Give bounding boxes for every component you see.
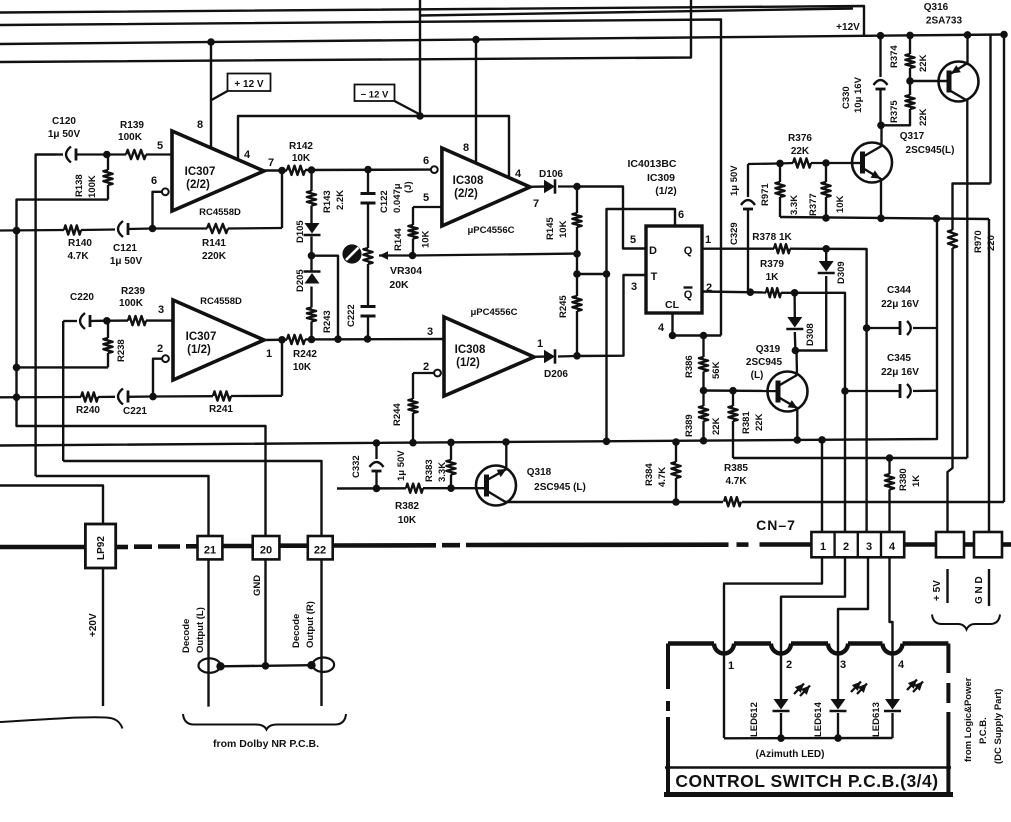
pin 6 inverting bubble IC307(2/2): [162, 188, 169, 195]
svg-text:7: 7: [268, 157, 274, 169]
label D106: [539, 169, 563, 180]
svg-text:G N D: G N D: [974, 576, 985, 604]
wire pin4 CL line: [669, 313, 721, 339]
svg-text:D: D: [649, 245, 657, 257]
pin 3: [158, 304, 164, 316]
svg-text:LED613: LED613: [871, 702, 882, 737]
pin 2 label: [706, 282, 712, 294]
svg-text:R242: R242: [293, 349, 317, 360]
label R141 value: [202, 238, 227, 262]
label Q316 type: [924, 2, 963, 27]
svg-text:3: 3: [427, 326, 433, 338]
connector line right of 22 with dashes: [333, 545, 812, 546]
capacitor C332: [370, 443, 384, 488]
svg-text:1: 1: [537, 338, 543, 350]
label D308: [805, 323, 816, 346]
svg-text:Q316: Q316: [924, 2, 949, 13]
label IC309: [647, 172, 675, 184]
svg-text:10K: 10K: [835, 195, 846, 213]
svg-text:R141: R141: [202, 238, 226, 249]
svg-text:Decode: Decode: [181, 619, 192, 653]
op-amp IC308 (1/2): [444, 317, 534, 396]
svg-text:R144: R144: [393, 228, 404, 251]
svg-text:LED614: LED614: [813, 701, 824, 737]
wire R374 junction to Q316 base: [910, 80, 947, 82]
resistor R389: [699, 391, 708, 442]
label R374 value: [889, 45, 929, 72]
svg-text:(1/2): (1/2): [456, 357, 480, 369]
node R145 bottom: [573, 254, 581, 278]
resistor R385: [723, 495, 742, 508]
resistor R140: [0, 225, 81, 234]
resistor R144: [408, 207, 442, 256]
svg-text:R142: R142: [289, 141, 313, 152]
node between D105 and D205: [308, 237, 316, 272]
svg-text:C330: C330: [841, 86, 852, 109]
svg-text:C120: C120: [52, 116, 76, 127]
pin number 1 inside box: [728, 660, 734, 672]
brace left power group: [0, 717, 123, 728]
label GND square: [974, 576, 985, 604]
svg-text:21: 21: [204, 545, 216, 557]
label R389 value: [684, 414, 722, 437]
svg-text:22μ 16V: 22μ 16V: [881, 367, 919, 378]
wire rail short stub: [989, 35, 991, 184]
svg-text:R143: R143: [322, 190, 333, 213]
label C332 value: [351, 450, 407, 481]
svg-text:Q319: Q319: [756, 344, 781, 355]
label LED612: [749, 702, 760, 737]
label R379 value: [760, 259, 784, 283]
label +20V: [88, 613, 99, 637]
label R144 value: [393, 228, 432, 251]
pin 6: [151, 175, 157, 187]
svg-text:μPC4556C: μPC4556C: [467, 225, 514, 236]
wire GND feed column: [988, 219, 990, 532]
wire C120 left to pin21 column: [36, 155, 56, 477]
capacitor C220: [63, 313, 99, 329]
label Q317 type: [900, 131, 955, 156]
loop eyelet pin21: [199, 658, 225, 672]
svg-text:Decode: Decode: [291, 614, 302, 648]
svg-text:5: 5: [630, 234, 636, 246]
svg-text:2SC945: 2SC945: [746, 357, 783, 368]
LED LED612: [773, 699, 790, 739]
label LED614: [813, 701, 824, 737]
wire IC307 pin8 supply: [210, 42, 212, 147]
svg-text:1μ 50V: 1μ 50V: [110, 256, 143, 267]
svg-text:3: 3: [158, 304, 164, 316]
label R378 value: [752, 232, 792, 243]
svg-text:4: 4: [658, 322, 665, 334]
LED LED613: [884, 699, 901, 738]
pin 2 inverting bubble IC308(1/2): [434, 370, 441, 377]
svg-text:10K: 10K: [421, 230, 432, 248]
pin 5: [157, 140, 163, 152]
resistor R141: [153, 224, 283, 233]
label R381 value: [741, 411, 765, 434]
label R145 value: [545, 217, 569, 240]
label R376 value: [788, 133, 812, 157]
label R385 value: [724, 463, 748, 487]
op-amp IC307 (2/2): [172, 131, 264, 211]
resistor R384: [671, 438, 680, 502]
svg-text:R385: R385: [724, 463, 748, 474]
pin 7 label: [533, 198, 539, 210]
svg-text:GND: GND: [252, 575, 263, 596]
svg-text:4.7K: 4.7K: [725, 476, 747, 487]
svg-text:D308: D308: [805, 323, 816, 346]
label R242 value: [293, 349, 318, 373]
wire R379 to C345 column: [781, 289, 849, 532]
svg-text:R970: R970: [973, 230, 984, 253]
svg-text:T: T: [651, 271, 658, 283]
svg-text:(1/2): (1/2): [187, 344, 211, 356]
svg-text:+12V: +12V: [836, 22, 860, 33]
svg-text:CN–7: CN–7: [756, 517, 796, 533]
svg-text:Q: Q: [684, 289, 693, 301]
wire Q317 emitter line: [780, 214, 989, 222]
pin number 2 inside box: [786, 659, 792, 671]
capacitor C345: [845, 384, 937, 398]
wire base node to R380 line: [733, 454, 967, 462]
label Q318 type: [527, 467, 586, 493]
svg-text:22μ 16V: 22μ 16V: [881, 299, 919, 310]
transistor Q318: [476, 442, 516, 505]
label uPC4556C second: [470, 307, 517, 318]
svg-text:2SA733: 2SA733: [926, 16, 963, 27]
label GND pin20: [252, 575, 263, 596]
label R245: [558, 295, 569, 318]
svg-text:IC4013BC: IC4013BC: [627, 158, 676, 170]
svg-text:(J): (J): [403, 181, 414, 193]
label C222: [346, 304, 357, 327]
pin 1 label: [705, 234, 711, 246]
svg-text:(1/2): (1/2): [655, 185, 677, 197]
svg-text:C121: C121: [113, 243, 137, 254]
label R243 value: [322, 310, 333, 333]
wire CN7 pin1 feed: [821, 441, 823, 532]
svg-text:R376: R376: [788, 133, 812, 144]
svg-text:CONTROL SWITCH P.C.B.(3/4): CONTROL SWITCH P.C.B.(3/4): [675, 771, 938, 791]
wire CN7 pin4 to box: [890, 557, 893, 699]
svg-text:(DC Supply Part): (DC Supply Part): [993, 689, 1004, 764]
label +5V: [932, 580, 943, 601]
resistor R376: [776, 158, 852, 167]
connector LP92: [85, 524, 115, 568]
svg-text:(2/2): (2/2): [454, 188, 478, 200]
pin 4 label: [515, 168, 522, 180]
wire LP92 feed: [0, 486, 103, 525]
wire gnd link between loops: [221, 662, 312, 670]
svg-text:4.7K: 4.7K: [67, 251, 89, 262]
wire main horizontal bus: [0, 219, 937, 447]
pin 4 label: [658, 322, 665, 334]
wire R242 to IC308(1/2) pin3: [305, 335, 444, 343]
connector line dashes: [116, 544, 198, 549]
svg-text:R377: R377: [808, 193, 819, 216]
diode D105: [304, 223, 321, 235]
svg-text:VR304: VR304: [390, 265, 422, 277]
svg-text:2SC945(L): 2SC945(L): [906, 145, 955, 156]
label R240: [76, 405, 100, 416]
label R238: [116, 339, 127, 362]
node Q316 base drive: [906, 77, 914, 85]
label CN-7: [756, 517, 796, 533]
label R970 value: [973, 230, 997, 253]
svg-text:R241: R241: [209, 404, 233, 415]
svg-text:LP92: LP92: [96, 536, 107, 560]
wire feedback R241 to output: [281, 340, 283, 396]
svg-text:20: 20: [260, 545, 272, 557]
connector main line left: [0, 545, 85, 550]
pin 3 label: [631, 281, 637, 293]
brace from logic power: [932, 615, 1000, 630]
pin 8: [197, 119, 203, 131]
svg-text:R971: R971: [760, 183, 771, 206]
svg-text:C122: C122: [379, 190, 390, 213]
svg-text:D105: D105: [295, 220, 306, 243]
pin 4: [244, 149, 251, 161]
svg-text:R374: R374: [889, 45, 900, 68]
svg-text:1: 1: [266, 348, 272, 360]
wire +12V rail: [0, 31, 1008, 46]
svg-text:(L): (L): [751, 370, 764, 381]
capacitor C344: [867, 321, 937, 335]
svg-text:IC308: IC308: [455, 344, 486, 356]
pin 6 inverting bubble IC308(2/2): [431, 166, 438, 173]
resistor R380: [885, 458, 894, 532]
svg-text:R383: R383: [424, 459, 435, 482]
label C329 value: [729, 165, 740, 245]
wire C220 left to pin22 column: [62, 321, 64, 461]
svg-text:3.3K: 3.3K: [437, 462, 448, 482]
svg-text:+20V: +20V: [88, 613, 99, 637]
label R971 value: [760, 183, 800, 215]
svg-text:LED612: LED612: [749, 702, 760, 737]
pin 2 inverting bubble IC307(1/2): [162, 355, 169, 362]
capacitor C221: [98, 389, 157, 405]
wire pin20 gnd drop: [264, 559, 266, 666]
label CONTROL SWITCH PCB: [675, 771, 938, 791]
svg-text:1μ 50V: 1μ 50V: [48, 129, 81, 140]
svg-text:1μ 50V: 1μ 50V: [729, 165, 740, 196]
wire bus line 1: [0, 6, 864, 36]
wire IC307(1/2) output node: [264, 336, 287, 344]
svg-text:8: 8: [197, 119, 203, 131]
wire D105/D205 node to input line: [312, 256, 339, 339]
label D206: [544, 369, 568, 380]
wire R138 bottom to left rail: [17, 200, 109, 231]
wire R238 bottom to left rail: [13, 364, 108, 372]
op-amp IC307 (1/2): [173, 300, 264, 380]
svg-text:10K: 10K: [293, 362, 312, 373]
connector line right end: [1002, 542, 1011, 547]
svg-text:2: 2: [843, 541, 849, 553]
svg-text:100K: 100K: [118, 132, 143, 143]
svg-text:7: 7: [533, 198, 539, 210]
wire pin2 input: [153, 359, 162, 397]
resistor R383: [446, 443, 455, 489]
label C220: [70, 292, 94, 303]
loop eyelet pin22: [307, 658, 334, 672]
power label +12V boxed: [212, 74, 271, 101]
svg-text:Output (L): Output (L): [195, 607, 206, 653]
resistor R142: [287, 166, 305, 175]
connector line 21-20: [222, 544, 252, 549]
connector pin 22: [308, 536, 333, 559]
label RC4558D: [199, 207, 241, 218]
svg-text:C345: C345: [887, 353, 911, 364]
wire CN7 pin3 to box: [838, 557, 868, 699]
connector line CN7 to +5V square: [904, 542, 936, 547]
label D105: [295, 220, 306, 243]
svg-text:RC4558D: RC4558D: [199, 207, 241, 218]
diode D106: [530, 179, 581, 193]
svg-text:2.2K: 2.2K: [335, 190, 346, 210]
svg-text:R378 1K: R378 1K: [752, 232, 792, 243]
wire vertical from top to -12V node: [419, 0, 421, 115]
svg-text:100K: 100K: [119, 298, 144, 309]
wire +5V stub: [946, 569, 948, 603]
wire Q319 base line: [700, 387, 777, 395]
label C221: [123, 406, 147, 417]
flip-flop IC309 box: [646, 226, 702, 313]
label R384 value: [644, 463, 668, 487]
svg-text:P.C.B.: P.C.B.: [978, 717, 989, 744]
label R380 value: [898, 468, 922, 491]
svg-text:R379: R379: [760, 259, 784, 270]
resistor R375: [881, 81, 915, 125]
label IC309 half: [655, 185, 677, 197]
label C330 value: [841, 76, 864, 113]
svg-text:4: 4: [889, 541, 896, 553]
svg-text:C344: C344: [887, 285, 911, 296]
svg-text:4: 4: [244, 149, 251, 161]
connector pin 21: [198, 536, 223, 559]
svg-text:1K: 1K: [911, 475, 922, 487]
resistor R382: [406, 484, 423, 493]
svg-text:D206: D206: [544, 369, 568, 380]
resistor R245: [572, 274, 581, 360]
brace from Dolby NR: [183, 714, 346, 730]
resistor R377: [821, 163, 830, 218]
label band line: [665, 766, 951, 768]
resistor R374: [905, 35, 914, 81]
resistor R138: [103, 155, 112, 200]
svg-text:IC309: IC309: [647, 172, 675, 184]
svg-text:22: 22: [314, 545, 326, 557]
wire D308/D309 bottom link: [792, 347, 828, 355]
wire pin21 output drop: [207, 559, 209, 706]
resistor R379: [766, 288, 781, 297]
label C344 value: [881, 285, 919, 310]
svg-text:6: 6: [151, 175, 157, 187]
svg-text:R145: R145: [545, 217, 556, 240]
LED light arrows 1: [794, 684, 810, 697]
svg-text:4: 4: [515, 168, 522, 180]
svg-text:Q318: Q318: [527, 467, 552, 478]
svg-text:R138: R138: [74, 174, 85, 197]
transistor Q317: [852, 125, 892, 218]
label R143 value: [322, 190, 346, 213]
wire Q output pin1: [702, 247, 774, 249]
svg-text:5: 5: [423, 192, 429, 204]
pin number 3 inside box: [840, 659, 846, 671]
resistor R143: [307, 170, 316, 223]
svg-text:from Logic&Power: from Logic&Power: [963, 677, 974, 762]
wire bus line 3: [0, 20, 721, 336]
connector line 20-22: [279, 543, 307, 548]
svg-text:D205: D205: [295, 269, 306, 292]
svg-text:− 12 V: − 12 V: [361, 90, 389, 101]
wire +20V drop: [102, 568, 104, 706]
wire GND route to pin20: [13, 227, 266, 536]
svg-text:6: 6: [423, 155, 429, 167]
svg-text:IC307: IC307: [185, 166, 216, 178]
label Q319 type: [746, 344, 783, 381]
resistor R241: [153, 391, 282, 400]
pin 5 label: [423, 192, 429, 204]
pin 2 label: [423, 361, 429, 373]
svg-text:1: 1: [705, 234, 711, 246]
svg-text:Q317: Q317: [900, 131, 925, 142]
label Decode Output (R): [291, 601, 316, 648]
resistor R386: [699, 336, 708, 391]
LED light arrows 2: [851, 682, 867, 695]
resistor R139: [99, 150, 172, 159]
power label -12V boxed: [355, 85, 420, 115]
svg-text:RC4558D: RC4558D: [200, 296, 242, 307]
label R375 value: [889, 100, 929, 126]
svg-text:C329: C329: [729, 222, 740, 245]
label R239 value: [119, 286, 145, 309]
svg-text:22K: 22K: [754, 413, 765, 431]
capacitor C121: [81, 221, 156, 237]
wire pin22 output drop: [320, 559, 322, 706]
label C345 value: [881, 353, 919, 378]
op-amp IC308 (2/2): [442, 148, 530, 226]
resistor R239: [99, 316, 173, 325]
control switch box right edge dashed: [946, 644, 950, 768]
svg-text:R384: R384: [644, 463, 655, 486]
diode D205: [304, 272, 321, 284]
svg-text:0.047μ: 0.047μ: [392, 183, 403, 213]
svg-text:R382: R382: [395, 501, 419, 512]
wire Q318 emitter R385 line: [506, 498, 1005, 506]
svg-text:3: 3: [840, 659, 846, 671]
diode D309: [818, 249, 835, 351]
diode D206: [534, 349, 577, 363]
wire Q318 base line: [337, 485, 406, 493]
svg-text:C332: C332: [351, 455, 362, 478]
svg-text:Output (R): Output (R): [305, 601, 316, 648]
svg-text:(2/2): (2/2): [186, 179, 210, 191]
label R241: [209, 404, 233, 415]
wire IC307(2/2) output node: [264, 167, 287, 175]
capacitor C120: [56, 147, 99, 163]
svg-text:1: 1: [728, 660, 734, 672]
svg-text:+ 5V: + 5V: [932, 580, 943, 601]
svg-text:R239: R239: [121, 286, 145, 297]
label RC4558D second: [200, 296, 242, 307]
connector GND square: [974, 532, 1002, 557]
label C120 value: [48, 116, 81, 140]
label C122 value: [379, 181, 414, 213]
svg-text:R386: R386: [684, 355, 695, 378]
resistor R971: [775, 163, 784, 217]
wire D206 to IC309 T input: [577, 275, 645, 356]
